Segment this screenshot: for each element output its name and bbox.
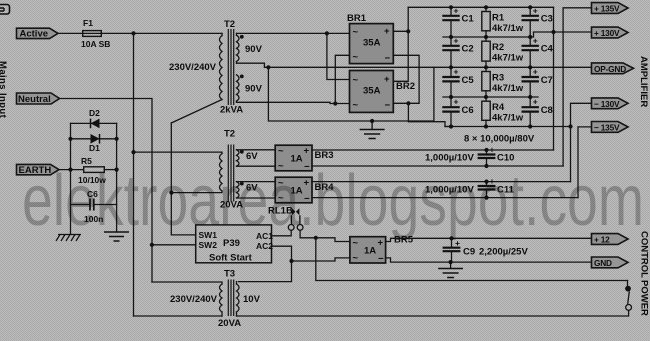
svg-text:+: +: [454, 35, 459, 45]
svg-text:C2: C2: [462, 44, 474, 55]
wire D1 branch: [71, 138, 117, 140]
svg-text:C6: C6: [462, 105, 474, 116]
junction dot C9 top: [449, 236, 453, 240]
junction dot BR2 minus: [406, 101, 410, 105]
svg-text:~: ~: [353, 253, 359, 264]
ground earth symbol under BR2: [360, 121, 385, 139]
wire BR5 minus to GND tag: [386, 258, 592, 262]
fuse F1 10A SB: [81, 18, 110, 49]
switch contact bottom: [626, 305, 632, 311]
ground earth symbol control: [438, 262, 463, 277]
svg-text:elektroarea.blogspot.com: elektroarea.blogspot.com: [22, 161, 644, 241]
svg-text:2kVA: 2kVA: [220, 105, 243, 116]
relay contact RL1B arrows: [292, 208, 296, 215]
wire small T2 primary bottom: [171, 191, 222, 193]
node +135V output tag: [592, 3, 629, 14]
wire BR2 minus pin: [393, 102, 408, 104]
wire T2 primary bottom diagonal: [171, 100, 222, 124]
diode D1: [89, 134, 100, 153]
bridge rectifier BR2 35A: [350, 71, 416, 113]
wire node to BR5 in bottom: [292, 258, 350, 261]
svg-text:+: +: [384, 74, 390, 85]
junction dot bank: [449, 35, 453, 39]
capacitor C2 10000u/80V: [442, 35, 473, 67]
svg-text:F1: F1: [83, 18, 93, 28]
junction dot small T2 primary bottom: [169, 191, 173, 195]
svg-text:OP-GND: OP-GND: [594, 64, 626, 74]
bridge rectifier BR1 35A: [347, 13, 393, 64]
svg-text:Neutral: Neutral: [18, 94, 51, 105]
junction dot C11 bottom: [484, 196, 488, 200]
svg-text:4k7/1w: 4k7/1w: [492, 53, 524, 64]
node Neutral input tag: [17, 93, 60, 105]
wire 6V upper to BR3: [237, 150, 276, 166]
junction dot Active vertical: [131, 31, 135, 35]
junction dot bank: [484, 35, 488, 39]
svg-text:+: +: [454, 67, 459, 77]
wire Active tag to fuse F1: [58, 32, 83, 34]
junction dot bank: [528, 124, 532, 128]
capacitor C4 10000u/80V: [522, 35, 554, 67]
ground chassis symbol left: [56, 235, 81, 242]
wire center tap: [237, 63, 269, 67]
transformer T3 secondary winding 10V: [237, 284, 240, 312]
capacitor C6 100n: [84, 189, 103, 224]
wire T3 primary top feed: [152, 282, 222, 284]
svg-text:POWER: POWER: [639, 280, 650, 316]
wire D2 branch: [71, 122, 117, 124]
svg-text:BR1: BR1: [347, 13, 367, 24]
svg-text:~: ~: [353, 52, 359, 63]
junction dot SW2 neutral: [150, 243, 154, 247]
resistor R5 10/10w: [78, 156, 106, 185]
wire chassis lead down: [70, 205, 72, 235]
bridge rectifier BR4 1A: [275, 177, 334, 204]
junction dot bank: [484, 124, 488, 128]
wire -130V riser: [571, 103, 592, 181]
svg-text:35A: 35A: [363, 86, 381, 97]
wire Active vertical down to bottom rail: [133, 33, 135, 316]
capacitor C6 10000u/80V: [442, 97, 473, 127]
wire BR3 minus row: [312, 165, 563, 167]
svg-text:C7: C7: [541, 75, 553, 86]
svg-text:BR2: BR2: [396, 81, 415, 92]
junction dot Active to small T2: [131, 150, 135, 154]
transformer T2 20VA primary winding: [220, 154, 223, 192]
svg-text:2,200µ/25V: 2,200µ/25V: [479, 247, 528, 258]
wire R5 to right junction: [104, 169, 116, 171]
junction dot D1 left: [68, 137, 72, 141]
switch power contact top: [627, 281, 629, 287]
capacitor C10 1000u/10V: [478, 145, 515, 167]
junction dot chassis ground: [370, 119, 374, 123]
wire OP-GND row: [268, 66, 591, 68]
junction dot bank: [484, 5, 488, 9]
wire AC2 to BR5 node: [272, 246, 292, 261]
svg-text:1A: 1A: [364, 246, 376, 257]
transformer T2 20VA secondary 6V upper: [237, 150, 240, 166]
module P39 Soft Start: [196, 225, 274, 264]
wire bank top rail +135V row: [408, 6, 553, 8]
svg-text:C3: C3: [541, 14, 553, 25]
wire bottom rail right to switch: [237, 311, 629, 316]
svg-text:R1: R1: [492, 12, 505, 23]
svg-text:−: −: [378, 254, 384, 265]
ground earth symbol under R5: [104, 232, 129, 241]
svg-text:+: +: [533, 67, 538, 77]
wire down to BR2 AC top: [327, 33, 350, 79]
svg-text:35A: 35A: [363, 38, 381, 49]
svg-text:AC2: AC2: [256, 241, 273, 251]
svg-text:T2: T2: [224, 129, 235, 140]
diode D2: [89, 108, 100, 128]
node GND output tag: [592, 257, 629, 268]
svg-text:−: −: [385, 53, 391, 64]
junction dot EARTH right: [115, 168, 119, 172]
wire center tap down to chassis row: [268, 67, 434, 121]
wire -135V riser: [578, 127, 592, 198]
svg-text:+: +: [384, 26, 390, 37]
junction dot BR5 ac top node: [314, 236, 318, 240]
wire C6 right lead: [94, 204, 117, 206]
junction dot GND row: [449, 260, 453, 264]
wire bank row4: [443, 96, 538, 98]
transformer T2 20VA core: [228, 145, 233, 202]
svg-text:4k7/1w: 4k7/1w: [492, 83, 524, 94]
svg-text:−: −: [385, 100, 391, 111]
svg-text:R4: R4: [492, 102, 505, 113]
junction dot EARTH left: [68, 168, 72, 172]
wire minus down to bottom bank row: [408, 103, 451, 126]
svg-text:~: ~: [278, 146, 284, 157]
junction dot BR5 ac bottom node: [289, 259, 293, 263]
capacitor C3 10000u/80V: [522, 5, 553, 37]
junction dot bank: [449, 65, 453, 69]
svg-text:~: ~: [353, 75, 359, 86]
junction dot D1 right: [115, 137, 119, 141]
svg-text:D1: D1: [89, 143, 100, 153]
wire secondary bottom to BR2 AC bottom: [237, 102, 350, 103]
polarity dot 6V lower: [240, 182, 244, 186]
svg-text:10A SB: 10A SB: [81, 39, 110, 49]
page icon top-left: [0, 5, 10, 15]
wire BR5 plus to +12 tag: [386, 238, 592, 241]
wire BR4 plus row: [312, 181, 571, 183]
svg-text:GND: GND: [594, 258, 612, 268]
wire bottom rail left: [134, 315, 223, 317]
junction dot bank: [528, 5, 532, 9]
svg-text:230V/240V: 230V/240V: [169, 62, 217, 73]
svg-text:Soft Start: Soft Start: [209, 253, 253, 264]
svg-text:C5: C5: [462, 75, 475, 86]
transformer T3 core: [228, 280, 233, 317]
svg-text:20VA: 20VA: [218, 318, 241, 329]
junction dot BR1 plus: [406, 29, 410, 33]
svg-text:R2: R2: [492, 42, 504, 53]
relay contact RL1B terminals: [288, 225, 294, 231]
wire EARTH to R5: [59, 169, 84, 171]
resistor R4 4k7/1w: [482, 97, 524, 127]
wire 6V lower to BR4: [237, 182, 276, 198]
wire F1 to T2 primary top: [101, 32, 222, 34]
wire node down to switch rail: [316, 238, 628, 281]
svg-text:C9: C9: [463, 247, 475, 258]
wire BR1 minus detour: [393, 55, 419, 103]
svg-text:Mains Input: Mains Input: [0, 61, 8, 119]
svg-text:C4: C4: [541, 44, 554, 55]
svg-text:− 130V: − 130V: [594, 99, 620, 109]
svg-text:+ 130V: + 130V: [594, 28, 620, 38]
capacitor C7 10000u/80V: [522, 67, 553, 98]
transformer T2 2kVA core: [228, 29, 233, 105]
svg-text:D2: D2: [89, 108, 100, 118]
junction dot bank: [484, 65, 488, 69]
switch lever: [628, 291, 630, 304]
capacitor C11 1000u/10V: [478, 176, 515, 198]
node +12 output tag: [592, 234, 629, 245]
wire BR4 minus row: [312, 197, 578, 199]
svg-text:+: +: [533, 97, 538, 107]
junction dot -130V row5: [568, 124, 572, 128]
wire diode loop left vertical: [70, 123, 72, 169]
svg-text:~: ~: [353, 27, 359, 38]
transformer T2 20VA secondary 6V lower: [237, 182, 240, 198]
wire +130V riser: [553, 7, 555, 150]
svg-text:+: +: [454, 97, 459, 107]
transformer T2 primary winding 230V/240V: [221, 33, 223, 35]
junction dot bank: [449, 95, 453, 99]
capacitor C9 2200u/25V: [443, 238, 529, 262]
wire node down to T3 secondary top: [239, 261, 292, 282]
wire relay to BR5 node: [300, 230, 316, 237]
resistor R2 4k7/1w: [482, 37, 524, 67]
junction dot C11 top: [484, 180, 488, 184]
wire C6 left lead: [71, 170, 91, 205]
svg-text:+: +: [490, 145, 495, 155]
wire bank bottom row: [445, 126, 571, 128]
svg-text:AMPLIFIER: AMPLIFIER: [638, 56, 649, 107]
junction dot C10 top: [484, 148, 488, 152]
wire plus vertical to top rail and BR2 plus: [393, 7, 408, 81]
svg-text:C1: C1: [462, 14, 475, 25]
junction dot center tap: [266, 65, 270, 69]
svg-text:+: +: [533, 5, 538, 15]
svg-text:Active: Active: [20, 29, 49, 40]
svg-text:230V/240V: 230V/240V: [170, 294, 218, 305]
wire diode loop right vertical: [116, 123, 118, 169]
svg-text:10V: 10V: [243, 294, 261, 305]
junction dot bank: [528, 65, 532, 69]
node OP-GND output tag: [592, 63, 634, 74]
svg-text:~: ~: [353, 100, 359, 111]
svg-text:4k7/1w: 4k7/1w: [492, 23, 524, 34]
svg-text:8 × 10,000µ/80V: 8 × 10,000µ/80V: [464, 134, 535, 145]
svg-text:90V: 90V: [245, 84, 263, 95]
node Active input tag: [17, 28, 59, 40]
svg-text:T3: T3: [224, 269, 235, 280]
svg-text:C8: C8: [541, 105, 553, 116]
junction dot bank: [449, 5, 453, 9]
junction dot bank: [528, 35, 532, 39]
wire +135V tag feed riser: [563, 8, 591, 166]
wire RL1 vertical SW1 leg: [171, 123, 195, 235]
node -130V output tag: [592, 98, 629, 109]
resistor R3 4k7/1w: [482, 67, 524, 97]
svg-text:+: +: [454, 5, 459, 15]
svg-text:+: +: [304, 146, 310, 157]
capacitor C1 10000u/80V: [442, 5, 474, 37]
wire secondary top to BR1 AC: [237, 32, 350, 34]
transformer T2 secondary winding 90V upper: [236, 33, 238, 35]
svg-text:T2: T2: [224, 19, 235, 30]
wire Neutral to vertical: [60, 99, 153, 283]
wire second T2 primary top feed: [134, 152, 223, 153]
svg-text:BR3: BR3: [315, 150, 334, 161]
svg-text:+: +: [533, 35, 538, 45]
polarity dot secondary lower: [240, 75, 244, 79]
svg-text:90V: 90V: [245, 44, 263, 55]
junction dot bank: [449, 124, 453, 128]
wire node to BR5 in top: [316, 238, 350, 242]
capacitor C8 10000u/80V: [522, 97, 553, 127]
polarity dot secondary upper: [240, 35, 244, 39]
svg-text:R3: R3: [492, 72, 504, 83]
wire C6 right lead down: [116, 170, 118, 232]
bridge rectifier BR3 1A: [275, 145, 333, 172]
junction dot BR2 AC feed: [325, 31, 329, 35]
wire bank row2: [443, 32, 592, 37]
svg-text:− 135V: − 135V: [594, 123, 620, 133]
node +130V output tag: [592, 27, 629, 38]
wire BR3 plus row: [312, 149, 554, 151]
transformer T2 secondary winding 90V lower: [237, 75, 240, 101]
polarity dot 6V upper: [240, 150, 244, 154]
junction dot BR1 AC return: [333, 101, 337, 105]
junction dot bank: [528, 95, 532, 99]
svg-text:+ 135V: + 135V: [594, 4, 620, 14]
resistor R1 4k7/1w: [482, 7, 524, 37]
junction dot C10 bottom: [484, 164, 488, 168]
bridge rectifier BR5 1A: [350, 235, 414, 265]
node EARTH input tag: [17, 164, 60, 175]
wire up to BR1 AC bottom: [335, 55, 349, 103]
transformer T3 primary winding: [220, 284, 223, 312]
wire SW2 to Neutral vertical: [152, 244, 196, 246]
wire BR1 plus output: [393, 30, 408, 32]
junction dot bank: [484, 95, 488, 99]
svg-text:4k7/1w: 4k7/1w: [492, 113, 524, 124]
wire AC1 to relay contact: [272, 230, 292, 235]
node -135V output tag: [592, 122, 629, 133]
junction dot +130V tag row: [551, 30, 555, 34]
capacitor C5 10000u/80V: [442, 67, 474, 98]
svg-text:SW2: SW2: [199, 240, 218, 250]
